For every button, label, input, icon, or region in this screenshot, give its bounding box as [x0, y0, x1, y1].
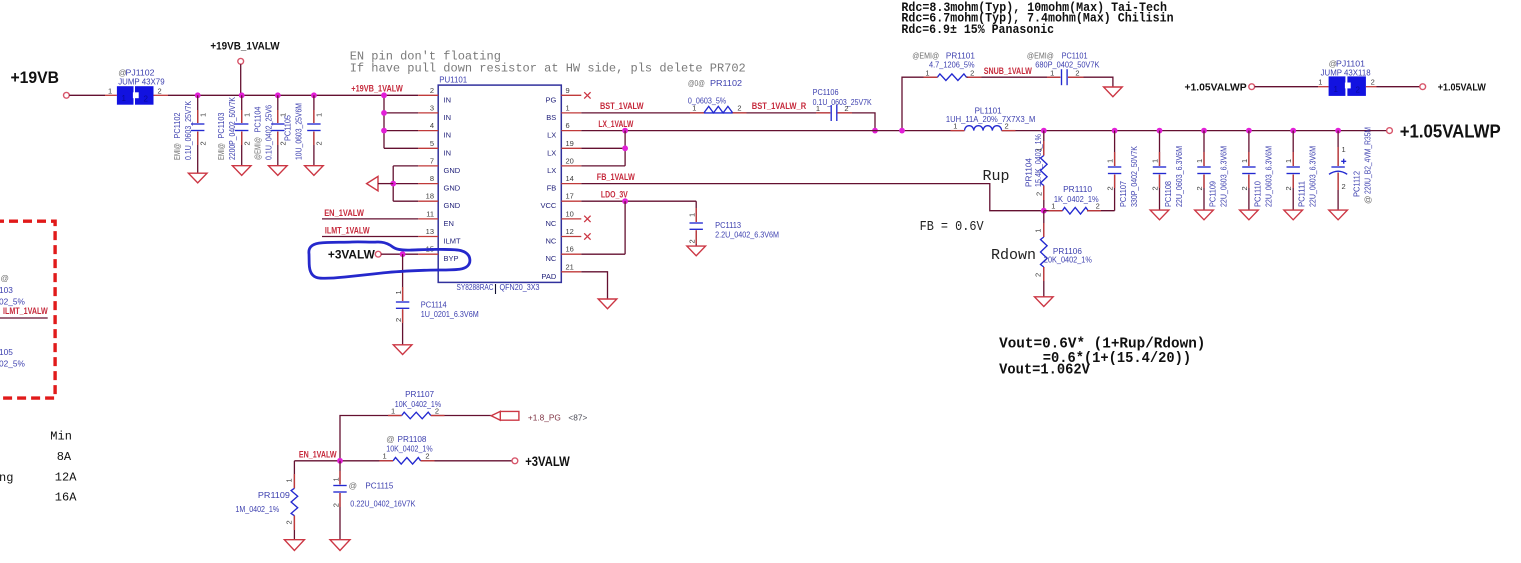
wire IN branch (pins 3,4,5) — [383, 95, 385, 148]
svg-text:2: 2 — [430, 86, 434, 95]
svg-text:<87>: <87> — [568, 413, 587, 423]
ground under PC1115 — [330, 540, 350, 551]
ground under PC1102 — [188, 173, 207, 183]
svg-text:IN: IN — [444, 95, 452, 104]
svg-text:2.2U_0402_6.3V6M: 2.2U_0402_6.3V6M — [715, 230, 779, 240]
svg-text:@: @ — [386, 434, 394, 444]
wire LX rail to inductor — [581, 130, 964, 132]
svg-text:PC1110: PC1110 — [1252, 181, 1262, 207]
svg-text:FB: FB — [547, 184, 557, 193]
ground under PR1106 — [1035, 297, 1054, 307]
svg-text:8: 8 — [430, 174, 434, 183]
svg-text:NC: NC — [545, 254, 556, 263]
svg-text:1: 1 — [108, 87, 112, 96]
svg-text:@0@: @0@ — [688, 78, 705, 88]
svg-text:1: 1 — [1334, 85, 1339, 94]
svg-text:BS: BS — [546, 113, 556, 122]
svg-text:FB_1VALW: FB_1VALW — [597, 172, 636, 182]
resistor PR1109 — [235, 461, 297, 540]
svg-text:2: 2 — [158, 87, 162, 96]
svg-text:2: 2 — [1096, 202, 1100, 211]
wire EN_1VALW row — [294, 460, 393, 462]
svg-text:2: 2 — [1150, 186, 1159, 190]
node dots on IN branch — [381, 92, 387, 98]
svg-text:1: 1 — [566, 103, 570, 112]
svg-text:PC1108: PC1108 — [1163, 181, 1173, 207]
svg-text:11: 11 — [426, 209, 434, 218]
svg-text:14: 14 — [566, 174, 574, 183]
wire jumper to IC pin2 (input rail) — [154, 94, 169, 96]
svg-text:IN: IN — [444, 131, 452, 140]
svg-text:5: 5 — [430, 139, 434, 148]
capacitor PC1110 — [1240, 131, 1274, 211]
resistor PR1110 (feedforward) — [1044, 184, 1115, 214]
svg-text:330P_0402_50V7K: 330P_0402_50V7K — [1129, 146, 1139, 207]
wire PR1107 branch riser — [340, 416, 402, 461]
svg-text:PC1106: PC1106 — [813, 87, 839, 97]
svg-text:Vout=1.062V: Vout=1.062V — [999, 362, 1090, 379]
svg-text:2: 2 — [1035, 192, 1044, 196]
svg-text:Rup: Rup — [983, 168, 1010, 185]
svg-text:1: 1 — [1318, 77, 1322, 86]
no-connect X on pin 10 (NC) — [584, 216, 590, 222]
terminal +1.05VALW — [1420, 84, 1426, 90]
svg-text:Min: Min — [50, 430, 72, 444]
svg-text:1: 1 — [122, 94, 127, 103]
ground under PC1114 — [393, 345, 412, 355]
capacitor PC1111 — [1284, 131, 1318, 211]
capacitor PC1103 — [216, 95, 251, 165]
svg-text:680P_0402_50V7K: 680P_0402_50V7K — [1035, 59, 1100, 69]
capacitor PC1113 — [687, 201, 779, 246]
svg-text:2: 2 — [1240, 186, 1249, 190]
svg-text:2: 2 — [1284, 186, 1293, 190]
capacitor PC1114 — [394, 254, 479, 345]
wire LX pins 19,20 bus — [624, 131, 626, 166]
svg-text:2: 2 — [1033, 273, 1042, 277]
svg-text:+1.05VALWP: +1.05VALWP — [1185, 81, 1247, 93]
jumper PJ1101 — [1318, 58, 1375, 96]
svg-text:105: 105 — [0, 347, 13, 357]
svg-text:9: 9 — [566, 86, 570, 95]
svg-text:PR1110: PR1110 — [1063, 184, 1092, 194]
wire EN_1VALW — [322, 218, 418, 220]
svg-text:2: 2 — [844, 104, 848, 113]
svg-text:2: 2 — [144, 95, 149, 104]
svg-text:PC1111: PC1111 — [1297, 181, 1307, 207]
svg-text:2: 2 — [1371, 77, 1375, 86]
svg-text:1: 1 — [1195, 159, 1204, 163]
svg-text:22U_0603_6.3V6M: 22U_0603_6.3V6M — [1219, 146, 1229, 207]
node dot FB divider — [1041, 208, 1047, 214]
svg-text:2: 2 — [394, 318, 403, 322]
svg-text:2: 2 — [1356, 86, 1361, 95]
svg-text:PC1104: PC1104 — [252, 106, 262, 132]
capacitor PC1107 — [1106, 131, 1140, 211]
svg-text:1: 1 — [687, 213, 696, 217]
svg-text:+19VB_1VALW: +19VB_1VALW — [351, 84, 403, 94]
svg-text:LX_1VALW: LX_1VALW — [598, 119, 634, 129]
no-connect X on pin 12 (NC) — [584, 233, 590, 239]
capacitor PC1115 — [332, 461, 416, 540]
wire jumper to +1.05VALW — [1366, 86, 1377, 88]
svg-text:FB = 0.6V: FB = 0.6V — [920, 220, 985, 235]
blue freehand circle around +3VALW/BYP — [309, 242, 470, 278]
svg-text:1: 1 — [925, 68, 929, 77]
svg-text:EN_1VALW: EN_1VALW — [324, 208, 364, 218]
svg-text:02_5%: 02_5% — [0, 359, 25, 369]
svg-text:@: @ — [1, 273, 9, 283]
svg-text:2: 2 — [198, 141, 207, 145]
svg-text:PC1103: PC1103 — [216, 112, 226, 138]
svg-text:18: 18 — [426, 192, 434, 201]
svg-text:22U_0603_6.3V6M: 22U_0603_6.3V6M — [1263, 146, 1273, 207]
ground under PAD — [598, 299, 617, 309]
IC right pin numbers — [566, 86, 574, 272]
svg-text:EN: EN — [444, 219, 454, 228]
svg-text:1U_0201_6.3V6M: 1U_0201_6.3V6M — [421, 309, 479, 319]
svg-text:LX: LX — [547, 166, 556, 175]
svg-text:12: 12 — [566, 227, 574, 236]
svg-text:12A: 12A — [55, 471, 77, 485]
svg-text:If have pull down resistor at: If have pull down resistor at HW side, p… — [350, 61, 746, 75]
svg-text:1: 1 — [1051, 202, 1055, 211]
svg-text:0.1U_0603_25V7K: 0.1U_0603_25V7K — [183, 101, 193, 160]
svg-text:0.22U_0402_16V7K: 0.22U_0402_16V7K — [350, 499, 415, 509]
svg-text:1: 1 — [1033, 229, 1042, 233]
svg-text:PC1105: PC1105 — [282, 115, 292, 141]
inductor PL1101 — [946, 106, 1035, 131]
svg-text:PU1101: PU1101 — [439, 75, 467, 85]
svg-text:PG: PG — [545, 95, 556, 104]
svg-text:103: 103 — [0, 285, 13, 295]
terminal +3VALW (bottom) — [512, 458, 518, 464]
svg-text:ILMT_1VALW: ILMT_1VALW — [3, 306, 48, 316]
svg-text:+19VB_1VALW: +19VB_1VALW — [210, 41, 280, 53]
node dots on output rail — [1041, 128, 1047, 134]
resistor PR1106 (Rdown) — [1033, 211, 1092, 297]
svg-text:VCC: VCC — [540, 201, 556, 210]
svg-text:1: 1 — [242, 113, 251, 117]
svg-text:1: 1 — [1284, 159, 1293, 163]
capacitor PC1109 — [1195, 131, 1229, 211]
svg-text:2: 2 — [687, 239, 696, 243]
terminal +3VALW — [375, 251, 381, 257]
wire PC1101 to ground — [1068, 77, 1113, 86]
wire SNUB branch — [902, 77, 938, 130]
svg-text:2: 2 — [425, 452, 429, 461]
terminal +1.05VALWP (rail end) — [1387, 128, 1393, 134]
off-page ground arrow — [367, 176, 378, 190]
IC right pin names — [540, 95, 556, 280]
wire PR1101 to PC1101 — [966, 76, 1060, 78]
svg-text:QFN20_3X3: QFN20_3X3 — [500, 282, 540, 292]
svg-text:PR1109: PR1109 — [258, 490, 290, 500]
svg-text:PC1113: PC1113 — [715, 220, 741, 230]
svg-text:2: 2 — [332, 503, 341, 507]
resistor PR1104 (Rup) — [1024, 131, 1047, 211]
capacitor PC1104 — [252, 95, 287, 165]
svg-text:ILMT: ILMT — [444, 237, 462, 246]
svg-text:+3VALW: +3VALW — [525, 454, 570, 469]
svg-text:PR1102: PR1102 — [710, 78, 742, 88]
svg-text:1: 1 — [1342, 145, 1346, 154]
svg-text:8A: 8A — [57, 450, 72, 464]
svg-text:2: 2 — [737, 104, 741, 113]
svg-text:+1.8_PG: +1.8_PG — [528, 413, 561, 423]
svg-text:IN: IN — [444, 148, 452, 157]
svg-text:+1.05VALWP: +1.05VALWP — [1400, 121, 1501, 141]
svg-text:PC1112: PC1112 — [1352, 171, 1362, 197]
svg-text:BST_1VALW: BST_1VALW — [600, 101, 644, 111]
svg-text:LX: LX — [547, 131, 556, 140]
svg-text:1M_0402_1%: 1M_0402_1% — [235, 504, 279, 514]
wire to jumper PJ1101 — [1255, 86, 1318, 88]
off-page connector +1.8_PG — [491, 411, 519, 420]
svg-text:4.7_1206_5%: 4.7_1206_5% — [929, 59, 975, 69]
ground under PC1110 — [1240, 210, 1259, 220]
wire output rail +1.05VALWP — [1002, 130, 1387, 132]
wire PC1106 to LX rail — [838, 113, 875, 131]
red dashed highlight box (clipped at left edge) — [0, 221, 55, 398]
svg-text:19: 19 — [566, 139, 574, 148]
svg-text:NC: NC — [545, 237, 556, 246]
svg-text:1: 1 — [315, 113, 324, 117]
svg-text:2: 2 — [1075, 68, 1079, 77]
svg-text:Rdown: Rdown — [991, 247, 1036, 264]
wire (clipped circuit) — [0, 317, 48, 319]
op-amp/regulator IC PU1101 body — [438, 85, 561, 282]
svg-text:1: 1 — [1240, 159, 1249, 163]
wire FB net to divider — [581, 184, 1044, 211]
red component pin stubs — [198, 77, 1338, 530]
svg-text:1: 1 — [198, 113, 207, 117]
svg-text:0.1U_0603_25V7K: 0.1U_0603_25V7K — [813, 97, 872, 107]
svg-text:GND: GND — [444, 201, 461, 210]
svg-text:6: 6 — [566, 121, 570, 130]
ground under PC1101 — [1104, 87, 1123, 97]
svg-text:2: 2 — [1005, 121, 1009, 130]
svg-text:2: 2 — [1195, 186, 1204, 190]
svg-text:1: 1 — [285, 478, 294, 482]
svg-text:PC1107: PC1107 — [1118, 181, 1128, 207]
svg-text:BYP: BYP — [444, 254, 459, 263]
svg-text:22U_0603_6.3V6M: 22U_0603_6.3V6M — [1174, 146, 1184, 207]
capacitor PC1102 — [172, 95, 207, 173]
capacitor PC1101 (horizontal) — [1027, 51, 1100, 86]
jumper PJ1102 — [108, 68, 165, 105]
svg-text:1: 1 — [1106, 159, 1115, 163]
svg-text:NC: NC — [545, 219, 556, 228]
svg-text:220U_B2_4VM_R35M: 220U_B2_4VM_R35M — [1363, 127, 1373, 194]
svg-text:1UH_11A_20%_7X7X3_M: 1UH_11A_20%_7X7X3_M — [946, 114, 1035, 124]
svg-text:1: 1 — [1035, 147, 1044, 151]
svg-text:7: 7 — [430, 156, 434, 165]
IC right pin stubs — [561, 95, 581, 271]
svg-text:1: 1 — [1050, 68, 1054, 77]
ground under PR1109 — [284, 540, 304, 551]
svg-text:GND: GND — [444, 184, 461, 193]
svg-text:1: 1 — [692, 104, 696, 113]
IC left pin names — [444, 95, 462, 263]
IC left pin stubs — [418, 95, 438, 254]
resistor PR1108 — [383, 434, 512, 464]
svg-text:22U_0603_6.3V6M: 22U_0603_6.3V6M — [1308, 146, 1318, 207]
wire BS to PR1102 — [581, 112, 704, 114]
resistor PR1101 — [912, 51, 975, 81]
svg-text:@: @ — [349, 480, 357, 490]
svg-text:GND: GND — [444, 166, 461, 175]
svg-text:PC1115: PC1115 — [365, 480, 393, 490]
svg-text:@: @ — [1363, 196, 1373, 204]
svg-text:1: 1 — [383, 452, 387, 461]
svg-text:20K_0402_1%: 20K_0402_1% — [1044, 255, 1093, 265]
svg-text:PC1109: PC1109 — [1208, 181, 1218, 207]
svg-text:1: 1 — [332, 477, 341, 481]
svg-text:20: 20 — [566, 156, 574, 165]
svg-text:EMI@: EMI@ — [172, 143, 182, 160]
svg-text:16A: 16A — [55, 491, 77, 505]
ground under PC1108 — [1150, 210, 1169, 220]
capacitor PC1112 (polarized) — [1329, 127, 1373, 210]
svg-text:1: 1 — [816, 104, 820, 113]
svg-text:BST_1VALW_R: BST_1VALW_R — [752, 101, 807, 111]
ground under PC1109 — [1195, 210, 1214, 220]
capacitor PC1106 (horizontal) — [813, 87, 872, 121]
svg-text:21: 21 — [566, 262, 574, 271]
svg-text:SY8288RAC: SY8288RAC — [457, 282, 494, 292]
ground under PC1105 — [305, 166, 324, 176]
svg-text:Rdc=6.9± 15% Panasonic: Rdc=6.9± 15% Panasonic — [901, 22, 1054, 37]
wire PR1102 to PC1106 — [733, 112, 831, 114]
svg-text:JUMP 43X118: JUMP 43X118 — [1321, 67, 1371, 77]
svg-text:2200P_0402_50V7K: 2200P_0402_50V7K — [227, 97, 237, 160]
svg-text:2: 2 — [970, 68, 974, 77]
svg-text:0.1U_0402_25V6: 0.1U_0402_25V6 — [263, 105, 273, 160]
svg-text:LDO_3V: LDO_3V — [601, 190, 628, 200]
svg-text:3: 3 — [430, 103, 434, 112]
svg-text:ILMT_1VALW: ILMT_1VALW — [325, 226, 370, 236]
svg-text:4: 4 — [430, 121, 434, 130]
svg-text:PC1102: PC1102 — [172, 112, 182, 138]
svg-text:16: 16 — [566, 245, 574, 254]
svg-text:ng: ng — [0, 471, 13, 485]
svg-text:JUMP 43X79: JUMP 43X79 — [118, 77, 165, 87]
svg-text:1: 1 — [391, 406, 395, 415]
svg-text:13: 13 — [426, 227, 434, 236]
svg-text:PR1108: PR1108 — [398, 434, 427, 444]
svg-text:SNUB_1VALW: SNUB_1VALW — [984, 66, 1033, 76]
ground under PC1104 — [269, 166, 288, 176]
wire LDO to NC pin16 — [624, 201, 626, 254]
ground under PC1103 — [232, 166, 251, 176]
svg-text:2: 2 — [285, 520, 294, 524]
svg-text:2: 2 — [315, 141, 324, 145]
svg-text:1K_0402_1%: 1K_0402_1% — [1054, 194, 1099, 204]
node dots on +19VB rail — [195, 92, 201, 98]
terminal +1.05VALWP (jumper) — [1249, 84, 1255, 90]
IC left pin numbers — [426, 86, 434, 254]
svg-text:PR1107: PR1107 — [405, 389, 434, 399]
svg-text:1: 1 — [1150, 159, 1159, 163]
wire GND bus (pins 7,8,18) — [392, 166, 394, 201]
svg-text:IN: IN — [444, 113, 452, 122]
wire VCC net — [581, 200, 696, 202]
no-connect X on pin 9 (PG) — [584, 92, 590, 98]
svg-text:LX: LX — [547, 148, 556, 157]
svg-text:@EMI@: @EMI@ — [252, 137, 262, 160]
svg-text:2: 2 — [242, 141, 251, 145]
svg-text:+1.05VALW: +1.05VALW — [1438, 81, 1486, 93]
svg-text:EN_1VALW: EN_1VALW — [299, 449, 337, 459]
wire ILMT_1VALW — [322, 236, 418, 238]
ground under PC1112 — [1329, 210, 1348, 220]
resistor PR1102 — [688, 78, 743, 113]
svg-text:17: 17 — [566, 192, 574, 201]
terminal +19VB — [64, 92, 70, 98]
wire +19VB to jumper — [69, 94, 105, 96]
svg-text:10: 10 — [566, 209, 574, 218]
wire BYP — [381, 253, 418, 255]
terminal +19VB_1VALW — [238, 58, 244, 64]
svg-text:2: 2 — [1106, 186, 1115, 190]
ground under PC1113 — [687, 246, 706, 256]
svg-text:+19VB: +19VB — [11, 68, 60, 87]
wire PAD to ground — [581, 272, 607, 299]
svg-text:10U_0603_25V6M: 10U_0603_25V6M — [293, 103, 303, 160]
svg-text:1: 1 — [394, 290, 403, 294]
svg-text:2: 2 — [435, 406, 439, 415]
svg-text:2: 2 — [1342, 182, 1346, 191]
ground under PC1111 — [1284, 210, 1303, 220]
capacitor PC1105 — [282, 95, 323, 165]
capacitor PC1108 — [1150, 131, 1184, 211]
svg-text:1: 1 — [953, 121, 957, 130]
resistor PR1107 — [391, 389, 491, 419]
svg-text:PAD: PAD — [541, 272, 556, 281]
wire terminal drop — [240, 64, 242, 95]
svg-text:+3VALW: +3VALW — [328, 247, 376, 261]
svg-text:EMI@: EMI@ — [216, 143, 226, 160]
svg-text:15.4K_0402_1%: 15.4K_0402_1% — [1033, 133, 1043, 187]
